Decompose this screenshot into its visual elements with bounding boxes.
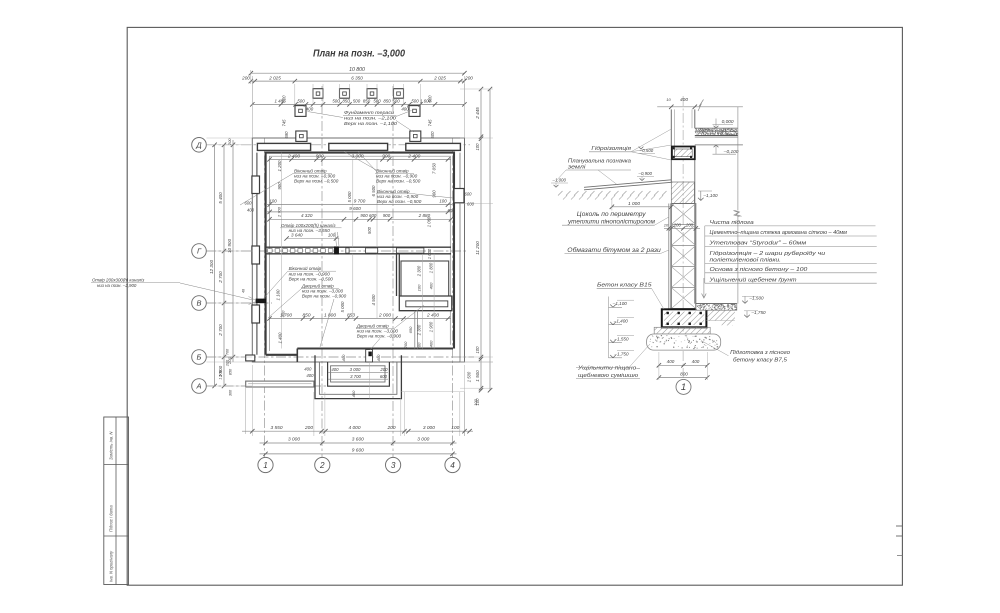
svg-text:4 000: 4 000 [348,425,360,431]
beam anchor dots [673,147,675,149]
svg-text:бетону класу В7,5: бетону класу В7,5 [733,358,788,364]
wall right edge line upper [694,109,696,128]
svg-text:745: 745 [428,119,433,127]
svg-text:2 025: 2 025 [433,75,446,80]
left dimension chain axis distances [223,145,225,386]
interior chain 9 600 [266,211,452,213]
svg-text:2 700: 2 700 [276,206,281,218]
terrace extension lines vertical [251,84,253,104]
level mark -1.400 left [609,324,623,326]
axis line B horizontal [206,356,474,358]
axis circle V [192,296,207,311]
basement floor screed right [696,304,737,311]
leader door1 [320,299,334,347]
svg-text:100: 100 [475,143,480,151]
svg-text:низ на позн. –2,100: низ на позн. –2,100 [344,116,396,122]
top dimension chain 200 2025 6350 2025 200 [251,80,465,82]
room inner line [270,156,451,351]
leader door2b [394,305,424,329]
sheet frame [127,27,902,585]
line porch to right dims [401,390,465,392]
svg-text:щебневою сумішшю: щебневою сумішшю [578,373,639,379]
frame fold marks [896,525,902,527]
reinforced belt beam [672,147,695,160]
svg-text:200: 200 [417,342,422,350]
svg-text:Бетон класу В15: Бетон класу В15 [597,282,652,288]
svg-text:1 800: 1 800 [428,262,433,273]
bottom dimension chain 3000 3600 3000 [260,442,457,444]
svg-text:650: 650 [408,326,413,333]
svg-text:10: 10 [664,222,669,227]
door axis extension line through porch [368,362,370,399]
level mark -1.100 left [609,306,623,308]
footing block concrete B15 [662,309,707,327]
svg-text:1 500: 1 500 [467,371,472,382]
svg-text:2 445: 2 445 [475,107,480,120]
svg-text:Верх на позн. –0,500: Верх на позн. –0,500 [294,178,339,183]
footing rebar dots [667,312,669,314]
svg-text:690: 690 [284,131,289,139]
leader bitumen [660,250,669,254]
svg-text:2 300: 2 300 [417,265,422,277]
svg-text:–1,400: –1,400 [613,319,628,324]
leader sand pad [629,344,650,367]
door opening in G wall 2 [396,248,424,253]
svg-text:400: 400 [351,390,356,397]
svg-text:500: 500 [428,95,433,103]
leader door2 [370,339,380,351]
room2 dimension chain 1700 850 1800 850 2000 2400 [270,318,452,320]
svg-text:400: 400 [428,340,433,347]
svg-text:500: 500 [297,99,305,104]
window left wall upper [252,176,260,194]
partition wall horizontal with niche [399,296,452,311]
svg-text:40: 40 [242,289,246,293]
room1 dimension chain 2400 900 3000 900 2400 [270,158,452,160]
svg-text:Гідроізоляція – 2 шари руберої: Гідроізоляція – 2 шари рубероїду чи [710,251,827,257]
svg-text:850: 850 [302,312,310,318]
axis circle B [192,350,207,365]
svg-text:Обмазати бітумом за 2 рази: Обмазати бітумом за 2 рази [567,248,661,254]
leader цоколь [655,217,669,225]
svg-text:500: 500 [430,131,435,139]
svg-text:600: 600 [465,192,473,197]
svg-text:900: 900 [360,213,368,218]
svg-text:2: 2 [319,461,325,470]
svg-text:100: 100 [417,284,422,291]
window W1 top wall [257,143,310,150]
leader to chimney [180,283,253,300]
axis line D horizontal [206,144,470,146]
terrace pier row top [313,89,323,99]
svg-text:10: 10 [666,97,671,102]
svg-text:Верх на позн. –0,900: Верх на позн. –0,900 [302,294,347,299]
ground level lines left [584,180,671,188]
detail bubble 1 [676,379,691,394]
svg-text:100: 100 [451,425,459,431]
window left wall middle [252,246,260,264]
leader window2 [344,152,378,172]
leader lean concrete [701,341,729,356]
svg-text:4 320: 4 320 [301,213,313,218]
svg-text:Верх на позн. –1,100: Верх на позн. –1,100 [344,121,397,127]
leader concrete B15 [652,288,665,309]
svg-text:600: 600 [380,374,388,379]
compacted sand-gravel pad [647,334,721,350]
leader window1 [240,174,293,206]
chimney block black left wall [256,299,266,303]
svg-text:5 000: 5 000 [347,191,352,203]
left step at axis B [246,355,255,361]
svg-text:200: 200 [464,75,473,80]
svg-text:поліетиленової плівки.: поліетиленової плівки. [710,258,782,264]
svg-text:200: 200 [403,341,408,349]
svg-text:400: 400 [376,354,381,361]
porch step rect [331,366,385,382]
axis line 4 vertical [452,138,454,458]
svg-text:Б: Б [197,353,202,362]
svg-text:3 640: 3 640 [291,233,303,238]
svg-text:10 800: 10 800 [349,67,365,73]
svg-text:Ущільнений щебенем ґрунт: Ущільнений щебенем ґрунт [708,276,796,283]
svg-text:План на позн. –3,000: План на позн. –3,000 [313,48,405,60]
foundation blocks wall with X pattern [671,204,696,309]
level marks left column [608,297,610,359]
right outer vertical line [489,89,491,390]
svg-text:400: 400 [331,367,339,372]
svg-text:400: 400 [428,282,433,289]
title block side strip [104,417,129,585]
svg-text:Віконний отвір: Віконний отвір [289,265,322,271]
svg-text:–1,100: –1,100 [703,193,718,198]
section top dimension line [657,106,743,108]
svg-text:1 500: 1 500 [475,370,480,382]
svg-text:Д: Д [195,141,202,150]
svg-text:2 025: 2 025 [268,75,281,80]
porch middle wall [319,362,397,394]
floor slab lower band [695,132,738,136]
svg-text:0,000: 0,000 [722,119,734,125]
floor slab 0.000 top line [695,127,738,129]
level mark -1.750 right [746,311,748,318]
lean concrete prep strip [654,327,710,334]
ground hatch right of footing [706,310,735,320]
right dimension chain 2445 100 11200 100 1500 100 [480,89,482,390]
table left connector [704,226,706,283]
bottom extension lines vertical [251,392,253,436]
svg-text:850: 850 [347,312,355,318]
svg-text:Гідроізоляція: Гідроізоляція [591,146,631,152]
svg-text:3 700: 3 700 [350,374,361,379]
svg-text:500: 500 [373,99,381,104]
svg-text:4: 4 [450,461,455,470]
interior vertical dim line left [281,153,283,349]
svg-text:400: 400 [667,359,675,364]
svg-text:11 200: 11 200 [475,241,480,255]
right vertical dimension line with break [737,107,739,211]
svg-text:–1,000: –1,000 [552,178,567,183]
svg-text:600: 600 [245,201,253,206]
svg-text:3 000: 3 000 [350,367,361,372]
svg-text:–1,100: –1,100 [612,301,627,306]
svg-text:900: 900 [382,154,390,160]
svg-text:6 500: 6 500 [371,185,376,197]
basement floor level mark -1.100 right of wall [700,191,702,201]
door opening bottom wall [366,350,373,363]
wall right edge line lower [694,160,696,304]
svg-text:500: 500 [282,95,287,103]
axis circle 3 [386,457,401,472]
svg-text:850: 850 [383,99,391,104]
svg-text:3 550: 3 550 [270,425,282,431]
plinth insulation hatched band [671,182,694,204]
wall top inner lines [674,109,676,146]
svg-text:низ на позн. –2,900: низ на позн. –2,900 [97,283,137,288]
arrow to floor layers [703,278,705,298]
svg-text:1: 1 [263,461,268,470]
porch outer wall [315,355,401,398]
section centerline [682,96,684,378]
svg-text:100: 100 [473,398,478,405]
svg-text:3 000: 3 000 [288,437,300,443]
floor slab screed stipple band [695,128,737,132]
svg-text:1 060: 1 060 [427,216,432,227]
partition wall vertical right rooms upper [396,254,398,296]
svg-text:–1,550: –1,550 [613,337,628,342]
svg-text:400: 400 [341,354,346,361]
svg-text:400: 400 [304,366,312,371]
leader window3 [415,194,453,198]
svg-text:600: 600 [467,202,475,207]
svg-text:745: 745 [282,119,287,127]
svg-text:2 400: 2 400 [407,154,420,160]
svg-text:1 000: 1 000 [427,248,432,259]
svg-text:Верх на позн. –0,500: Верх на позн. –0,500 [377,199,422,204]
svg-text:200: 200 [304,425,313,431]
svg-text:12 300: 12 300 [209,260,214,274]
closet inner rect right room [401,261,449,296]
svg-text:Підпис і дата: Підпис і дата [109,505,114,532]
svg-text:Цементно–піщана стяжка армован: Цементно–піщана стяжка армована сіткою –… [710,230,848,236]
svg-text:3 600: 3 600 [352,437,364,443]
svg-text:100: 100 [269,199,277,204]
svg-text:Отвір 200х300(h) каналіз: Отвір 200х300(h) каналіз [92,278,144,283]
svg-text:400: 400 [401,107,409,112]
porch inner wall [328,362,390,386]
bottom dimension 9 600 [260,453,457,455]
svg-text:400: 400 [247,208,255,213]
bitumen coating strip [668,204,670,310]
footing width dim 800 [659,377,707,379]
svg-text:850: 850 [342,99,350,104]
footing dim extension lines [658,352,660,380]
partition stub below niche [414,311,416,349]
svg-text:200: 200 [386,425,395,431]
svg-text:100: 100 [439,199,447,204]
svg-text:500: 500 [332,99,340,104]
svg-text:300: 300 [229,389,233,396]
bottom wall step jamb [296,349,298,363]
wall left edge line [670,109,672,182]
svg-text:2 400: 2 400 [287,154,300,160]
leader to channel [335,232,337,246]
interior vertical dim lines room2 center [352,254,354,319]
svg-text:1 100: 1 100 [276,289,281,301]
svg-text:500: 500 [353,99,361,104]
vent channels dashes in G wall [268,249,273,253]
axis circle A [192,379,207,394]
svg-text:9 700: 9 700 [354,199,366,204]
svg-text:500: 500 [411,99,419,104]
svg-text:400: 400 [281,310,286,317]
svg-text:1 800: 1 800 [324,312,336,318]
level mark -1.500 right [744,296,746,303]
svg-text:1 400: 1 400 [277,332,282,344]
svg-text:Верх на позн. –0,900: Верх на позн. –0,900 [357,334,402,339]
terrace pier on wall left [296,131,307,141]
floor slab bottom line [695,136,738,138]
ground hatch strokes [558,191,563,196]
interior vertical dim lines right rooms [421,254,423,349]
level mark -1.550 left [609,342,623,344]
svg-text:Фундамент тераси: Фундамент тераси [344,110,394,116]
svg-text:2 400: 2 400 [426,312,439,318]
svg-text:4 500: 4 500 [371,294,376,306]
right wall second line [459,153,461,362]
svg-text:–0,100: –0,100 [723,149,739,155]
svg-text:2 700: 2 700 [218,324,223,337]
dim 3 640 100 [287,238,340,240]
svg-text:Ущільнити піщано–: Ущільнити піщано– [577,365,641,371]
window W3 top wall [406,143,461,150]
leader window4 [263,271,288,299]
svg-text:Утеплювач “Styrodur” – 60мм: Утеплювач “Styrodur” – 60мм [708,241,806,247]
inner wall face thick [266,153,454,355]
axis circle G [192,244,207,259]
footing width dims 400 400 [659,364,707,366]
top pier dimension chain [252,103,464,105]
ceiling line -0.100 [695,144,743,146]
axis line A horizontal [206,385,330,387]
door jamb black bottom wall [369,352,372,356]
right extension lines horizontal [460,88,493,90]
svg-text:7 050: 7 050 [432,162,437,174]
svg-text:400: 400 [680,97,688,103]
svg-text:–0,900: –0,900 [638,171,653,176]
svg-text:9 600: 9 600 [349,206,361,211]
svg-text:200: 200 [673,222,682,227]
interior vertical dim lines center [352,159,354,247]
svg-text:400: 400 [306,373,314,378]
svg-text:900: 900 [383,213,391,218]
svg-text:600: 600 [448,208,456,213]
porch dim 400 3000 200 [328,371,388,373]
wall width dimension 10 200 200 [664,227,700,229]
axis line 2 vertical [321,86,323,458]
leader lines terrace foundation [308,112,344,118]
svg-text:200: 200 [241,75,250,80]
interior chain 4320 900 600 900 2880 [270,218,452,220]
svg-text:600: 600 [369,213,377,218]
terrace pier on wall right [410,131,421,141]
ramp slab at axis A [246,381,314,387]
svg-text:400: 400 [306,107,314,112]
svg-text:Замість інв. N: Замість інв. N [109,431,114,460]
bottom dimension chain 3550 200 4000 200 3000 100 [242,430,473,432]
outer wall boundary [252,138,464,362]
svg-text:1 900: 1 900 [428,321,433,332]
svg-text:Цоколь по периметру: Цоколь по периметру [577,212,647,218]
svg-text:5 400: 5 400 [218,192,223,204]
left dimension chain inner 10 900 [232,140,234,362]
left extension lines horizontal [207,137,253,139]
bottom wall inner edge left part [266,354,298,356]
axis line G horizontal [206,250,468,252]
axis circle 4 [445,457,460,472]
partition wall axis G [266,246,451,248]
porch dim 3700 600 [328,378,388,380]
leader ground mark [556,170,566,181]
svg-text:900: 900 [432,190,437,198]
svg-text:1: 1 [681,382,686,393]
interior chain 100 9700 100 [266,204,452,206]
door jamb black in G wall [334,247,338,255]
svg-text:–1,750: –1,750 [613,352,628,357]
svg-text:В: В [196,299,201,308]
svg-text:2 300: 2 300 [417,324,422,336]
svg-text:5 000: 5 000 [340,301,345,313]
axis line V horizontal [206,302,272,304]
axis line 3 vertical [392,86,394,458]
svg-text:Чиста підлога: Чиста підлога [710,220,755,226]
svg-text:100: 100 [328,233,336,238]
window W2 top wall [329,143,388,150]
svg-text:9 600: 9 600 [352,448,364,454]
svg-text:100: 100 [475,346,480,354]
svg-text:6 350: 6 350 [351,75,363,80]
window right wall [454,189,464,203]
svg-text:700: 700 [226,348,230,355]
svg-text:2 000: 2 000 [378,312,391,318]
svg-text:900: 900 [316,154,324,160]
top dimension line 10 800 [251,72,465,74]
svg-text:1 500: 1 500 [219,369,223,379]
terrace pier mid left [295,106,306,117]
break symbol top [698,100,704,112]
dimension 1 000 insulation depth [612,206,671,208]
left dimension chain outer 12 300 [214,145,216,386]
svg-text:Верх на позн. –0,500: Верх на позн. –0,500 [376,178,421,183]
svg-text:Верх на позн. –0,500: Верх на позн. –0,500 [289,277,334,282]
axis circle 2 [315,457,330,472]
axis circle 1 [258,457,273,472]
svg-text:А: А [195,382,201,391]
svg-text:200: 200 [685,222,694,227]
vent channel rect in G wall [366,248,378,253]
svg-text:землі: землі [567,164,587,170]
svg-text:3: 3 [391,461,396,470]
svg-text:1 000: 1 000 [628,201,640,207]
svg-text:2 700: 2 700 [218,271,223,284]
terrace pier mid right [409,106,420,117]
axis circle D [192,138,207,153]
leaders hydro [631,145,671,152]
svg-text:500: 500 [367,226,372,234]
svg-text:850: 850 [229,368,233,375]
level mark -1.750 left [609,357,623,359]
opening in G wall 1 [346,248,349,253]
svg-text:Інв. N оригіналу: Інв. N оригіналу [109,550,114,582]
